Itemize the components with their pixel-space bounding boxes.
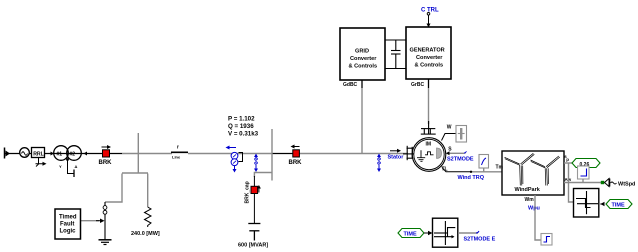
Aw pin wire — [564, 182, 601, 184]
grid box output wire — [361, 80, 363, 88]
cap branch wire 2 — [253, 194, 255, 224]
svg-text:BRK: BRK — [289, 160, 303, 166]
svg-text:S2TMODE: S2TMODE — [447, 156, 474, 162]
wire segment r to meter — [188, 153, 272, 155]
svg-text:Δ: Δ — [75, 164, 78, 169]
svg-text:Converter: Converter — [416, 55, 443, 61]
load branch wire — [147, 174, 149, 208]
breaker BRK1 — [99, 145, 113, 166]
comparator box bottom — [433, 218, 458, 247]
svg-text:GdBC: GdBC — [343, 82, 358, 88]
svg-text:S2TMODE E: S2TMODE E — [464, 237, 496, 243]
transformer output arrow — [84, 152, 88, 156]
TIME capsule right — [600, 200, 632, 209]
breaker BRK2 — [289, 145, 303, 167]
svg-text:Wm: Wm — [525, 197, 535, 203]
W pin wire — [442, 125, 457, 141]
wind turbine 2 — [531, 156, 560, 186]
svg-text:Tm: Tm — [496, 165, 504, 171]
WindPark box — [502, 151, 564, 195]
comparator box right — [574, 189, 599, 218]
gen box output wire — [428, 79, 430, 88]
svg-text:Y: Y — [59, 164, 62, 169]
bus node B1 — [137, 133, 139, 174]
CTRL input — [421, 8, 439, 28]
source V1 — [20, 148, 30, 158]
multimeter M1 — [226, 146, 243, 173]
svg-text:IM: IM — [426, 142, 432, 148]
wire bus2 to BRK2 — [272, 153, 293, 155]
ground terminal left — [5, 148, 11, 159]
svg-text:r: r — [177, 145, 179, 151]
svg-text:WindPark: WindPark — [515, 187, 541, 193]
capacitor C_bank — [248, 224, 260, 241]
TIME capsule bottom — [398, 229, 433, 238]
const capsule 0.26 — [572, 159, 600, 169]
svg-text:V = 0.31k3: V = 0.31k3 — [228, 131, 259, 138]
S pin wire — [446, 147, 474, 163]
p meter box — [578, 166, 590, 183]
svg-text:BRK: BRK — [99, 160, 113, 166]
wire bus1 segment — [122, 153, 172, 155]
TL pin wire — [442, 167, 504, 182]
svg-text:P = 1.102: P = 1.102 — [228, 116, 255, 123]
svg-text:240.0 [MW]: 240.0 [MW] — [131, 231, 160, 237]
power text block — [228, 116, 259, 138]
svg-text:Stator: Stator — [388, 155, 405, 161]
svg-text:GrBC: GrBC — [411, 82, 424, 88]
transformer T1 winding 1 — [54, 146, 69, 161]
RRL impedance box — [32, 148, 47, 167]
TRQ meter box — [479, 155, 489, 172]
machine top terminal — [421, 121, 436, 134]
fault switch — [103, 202, 107, 240]
stator arrow — [390, 149, 401, 153]
svg-text:TIME: TIME — [404, 232, 417, 238]
transformer T1 winding 2 — [67, 146, 82, 161]
svg-text:C TRL: C TRL — [421, 8, 439, 14]
cap branch wire — [254, 173, 272, 178]
wind turbine 1 — [505, 153, 535, 185]
svg-text:Wind TRQ: Wind TRQ — [458, 175, 485, 181]
transformer ground bar — [73, 170, 75, 178]
voltmeter E1 — [254, 154, 258, 172]
bus node B2 — [271, 129, 273, 181]
Timed Fault Logic box — [55, 209, 81, 239]
transformer ground wire — [68, 160, 74, 174]
svg-text:Timed: Timed — [59, 215, 77, 221]
svg-text:TIME: TIME — [612, 203, 625, 209]
load resistor — [145, 207, 152, 227]
fault branch wire — [105, 174, 122, 203]
svg-text:#1: #1 — [57, 152, 63, 158]
DC link wires — [385, 39, 406, 41]
svg-text:BRK_cap: BRK_cap — [245, 181, 251, 203]
DC link capacitor — [391, 40, 401, 69]
svg-text:p: p — [566, 157, 569, 162]
Wpu meter box — [541, 234, 552, 246]
W meter box — [456, 126, 467, 143]
svg-text:Fault: Fault — [60, 222, 74, 228]
transformer neutral junction — [66, 158, 69, 161]
svg-text:Wpu: Wpu — [528, 206, 540, 212]
fault control wire — [81, 219, 105, 224]
wire p to comparator — [569, 163, 574, 202]
svg-text:& Controls: & Controls — [415, 63, 444, 69]
svg-text:& Controls: & Controls — [349, 64, 378, 70]
p pin wire — [564, 162, 572, 164]
GENERATOR converter box — [406, 27, 451, 79]
svg-text:WtSpd: WtSpd — [618, 182, 635, 188]
S2TMODE output wire — [458, 231, 496, 243]
transformer input arrow — [51, 152, 55, 156]
svg-text:#2: #2 — [70, 152, 76, 158]
svg-text:Line: Line — [172, 155, 181, 160]
svg-text:Logic: Logic — [60, 229, 77, 235]
svg-text:600 [MVAR]: 600 [MVAR] — [238, 243, 268, 249]
induction machine IM — [412, 138, 446, 172]
breaker BRK_cap — [245, 176, 261, 204]
main wire left (source to breaker) — [5, 153, 122, 155]
radio link WtSpd — [601, 179, 636, 188]
wire BRK2 to machine — [299, 153, 408, 155]
fault bus connector — [122, 172, 148, 174]
svg-text:Q = 1936: Q = 1936 — [228, 123, 254, 130]
ground fault — [99, 240, 112, 245]
svg-text:Converter: Converter — [350, 56, 377, 62]
Wm wire — [535, 195, 541, 240]
svg-text:W: W — [447, 125, 452, 131]
svg-text:RRL: RRL — [33, 151, 44, 157]
voltmeter E2 — [377, 154, 381, 172]
line r element — [171, 145, 188, 160]
GRID converter box — [340, 28, 385, 80]
machine left terminal — [403, 146, 414, 160]
svg-text:GENERATOR: GENERATOR — [410, 48, 445, 54]
svg-text:GRID: GRID — [355, 49, 369, 55]
